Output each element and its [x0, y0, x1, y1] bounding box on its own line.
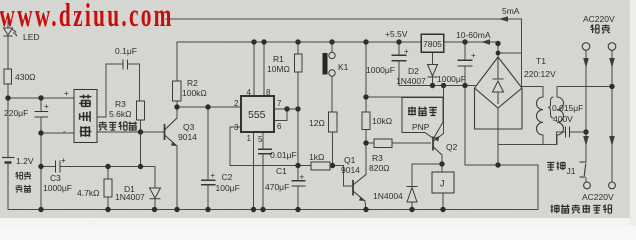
svg-text:R3: R3 [115, 99, 126, 109]
wire: minus bus y=85.5 [399, 85, 475, 87]
svg-text:7: 7 [277, 99, 282, 108]
wire: R2 / Q3 collector vertical [176, 42, 178, 118]
relay J [432, 172, 454, 193]
wire: R3 820 row [366, 142, 431, 144]
transistor Q3 9014 [165, 118, 178, 146]
svg-text:+: + [64, 89, 69, 98]
svg-text:0.01μF: 0.01μF [270, 150, 297, 160]
svg-text:555: 555 [248, 109, 266, 121]
wire: pin1 ground [253, 132, 255, 210]
IC U1 555 [241, 96, 274, 132]
svg-text:+: + [300, 173, 305, 182]
wire: pin7/pin6 link [274, 109, 298, 121]
capacitor 0.01uF [258, 149, 272, 154]
svg-text:R1: R1 [273, 54, 284, 64]
svg-text:T1: T1 [536, 56, 546, 66]
wire: 10k branch [365, 42, 367, 143]
diode D2 1N4007 [428, 65, 438, 78]
svg-text:10kΩ: 10kΩ [372, 116, 392, 126]
wire: 220uF branch [40, 98, 42, 210]
svg-text:C1: C1 [276, 166, 287, 176]
resistor 12 [329, 112, 338, 132]
resistor 1k [311, 162, 330, 170]
svg-text:+: + [404, 47, 409, 56]
watermark www.dziuu.com [0, 0, 174, 34]
svg-text:100kΩ: 100kΩ [182, 88, 207, 98]
wire: bottom ground rail [8, 209, 538, 211]
wire: LED branch vertical top [7, 21, 9, 27]
svg-text:+: + [44, 102, 49, 111]
svg-text:+: + [211, 171, 216, 180]
flow arrows on AC lines [583, 58, 589, 68]
LED D-LED [4, 28, 18, 36]
svg-text:www.dziuu.com: www.dziuu.com [0, 0, 174, 34]
svg-text:220:12V: 220:12V [524, 69, 556, 79]
svg-text:1000μF: 1000μF [43, 183, 72, 193]
svg-text:12Ω: 12Ω [309, 118, 325, 128]
svg-text:0.1μF: 0.1μF [115, 46, 137, 56]
wire: left battery rail [7, 36, 9, 210]
svg-text:0.015μF: 0.015μF [552, 103, 583, 113]
right light margin [630, 0, 636, 226]
wire: K1 / 12ohm branch [331, 42, 334, 166]
wire: pin5 / 0.01uF [262, 132, 264, 210]
svg-text:C3: C3 [50, 173, 61, 183]
wire: 4.7k branch [107, 167, 109, 210]
label charge battery hanzi [15, 172, 31, 192]
svg-text:400V: 400V [553, 114, 573, 124]
svg-text:5.6kΩ: 5.6kΩ [109, 109, 131, 119]
wire: AC right line [611, 51, 613, 182]
svg-text:8: 8 [266, 88, 271, 97]
diode D1 1N4007 [150, 188, 161, 199]
wire: pin3 route [230, 127, 311, 166]
wire: top 5mA charge line [166, 19, 522, 86]
bottom white margin [0, 218, 636, 226]
bridge rectifier [475, 57, 523, 129]
svg-text:R2: R2 [187, 78, 198, 88]
wire: primary leads [557, 87, 612, 145]
wire: bias line y=97 [366, 96, 444, 98]
wire: 555 pin2 horizontal [177, 106, 241, 108]
svg-text:820Ω: 820Ω [369, 163, 390, 173]
svg-text:4.7kΩ: 4.7kΩ [77, 188, 99, 198]
resistor R3 820 [374, 139, 392, 148]
wire: D2 branch [432, 52, 434, 86]
svg-text:9014: 9014 [178, 132, 197, 142]
wire: 1k to Q1 base [330, 166, 352, 187]
capacitor C2 100uF [201, 180, 216, 185]
svg-text:1.2V: 1.2V [16, 156, 34, 166]
svg-text:-: - [63, 127, 66, 136]
capacitor C1 470uF [292, 181, 306, 186]
svg-text:7805: 7805 [423, 39, 442, 49]
switch K1 [323, 52, 336, 76]
transistor Q1 9014 [353, 175, 366, 202]
capacitor 1000uF no.1 [392, 55, 407, 60]
callout medium power PNP [402, 98, 443, 139]
resistor 430 [4, 69, 12, 84]
resistor 10k [362, 112, 370, 130]
svg-text:9014: 9014 [341, 165, 360, 175]
svg-text:1kΩ: 1kΩ [309, 152, 324, 162]
wire: C2 branch [207, 107, 209, 210]
svg-text:R3: R3 [372, 153, 383, 163]
wire: 0.1uF loop [97, 64, 141, 167]
svg-text:3: 3 [234, 123, 239, 132]
svg-text:100μF: 100μF [216, 183, 240, 193]
svg-text:K1: K1 [338, 62, 349, 72]
regulator 7805 [421, 34, 444, 52]
wire: top supply rail [177, 41, 498, 43]
wire: R1 / C1 vertical [297, 42, 299, 210]
svg-text:Q1: Q1 [344, 155, 356, 165]
AC220V output terminals [584, 182, 591, 189]
wire: D1 branch [154, 167, 156, 210]
wire: clock box minus lead [41, 132, 74, 134]
svg-text:1000μF: 1000μF [437, 74, 466, 84]
svg-text:2: 2 [234, 99, 239, 108]
wire: bridge bottom / secondary [498, 108, 557, 165]
svg-text:430Ω: 430Ω [15, 72, 36, 82]
wire: Q2 emitter vertical [443, 86, 445, 134]
wire: 1000uF cap1 branch [398, 42, 400, 86]
wire: C3 row y=166.5 [41, 166, 155, 168]
svg-text:10MΩ: 10MΩ [267, 64, 290, 74]
battery BT 1.2V [2, 158, 15, 163]
svg-text:1: 1 [247, 134, 252, 143]
svg-text:6: 6 [277, 122, 282, 131]
svg-text:AC220V: AC220V [583, 14, 615, 24]
capacitor 0.1uF [123, 60, 128, 70]
resistor R3 5.6k [137, 101, 145, 120]
resistor R1 10M [295, 54, 303, 72]
svg-text:PNP: PNP [412, 122, 430, 132]
wire: AC left line [585, 51, 587, 183]
svg-text:AC220V: AC220V [582, 192, 614, 202]
label alarm output hanzi [99, 121, 137, 130]
svg-text:C2: C2 [222, 172, 233, 182]
capacitor 220uF [35, 112, 49, 118]
wire: bottom-right return [465, 165, 538, 210]
svg-text:5mA: 5mA [502, 6, 520, 16]
resistor 4.7k [104, 179, 112, 197]
svg-text:+5.5V: +5.5V [385, 29, 408, 39]
svg-text:1N4007: 1N4007 [115, 192, 145, 202]
capacitor 0.015uF 400V [566, 127, 570, 138]
svg-text:D2: D2 [408, 66, 419, 76]
svg-text:470μF: 470μF [265, 182, 289, 192]
resistor R2 100k [173, 81, 182, 101]
transformer T1 [537, 97, 564, 135]
svg-text:+: + [471, 51, 476, 60]
wire: alarm output to Q3 base [97, 131, 164, 133]
svg-text:Q3: Q3 [183, 122, 195, 132]
svg-text:220μF: 220μF [4, 108, 28, 118]
capacitor C3 1000uF [56, 161, 61, 173]
svg-text:4: 4 [247, 88, 252, 97]
svg-text:1N4007: 1N4007 [396, 76, 426, 86]
transistor Q2 PNP [433, 134, 444, 156]
relay contact J1 normally closed [580, 162, 587, 177]
AC220V input terminals [582, 43, 590, 51]
svg-text:5: 5 [258, 135, 263, 144]
svg-text:J: J [440, 179, 445, 189]
svg-text:1N4004: 1N4004 [373, 191, 403, 201]
svg-text:+: + [61, 156, 66, 165]
wire: 0.015uF row [557, 132, 587, 145]
wire: secondary top [522, 87, 543, 145]
svg-text:J1: J1 [567, 166, 576, 176]
svg-text:Q2: Q2 [446, 142, 458, 152]
wire: Q2 collector / relay [441, 155, 443, 172]
wire: rail bend into bridge [498, 42, 522, 66]
wire: 555 pin4 pin8 stubs [254, 42, 264, 96]
svg-text:1000μF: 1000μF [366, 65, 395, 75]
digital clock box U-CLK [74, 90, 97, 143]
capacitor 1000uF no.2 [458, 60, 473, 66]
svg-text:10-60mA: 10-60mA [456, 30, 491, 40]
diode 1N4004 [407, 187, 418, 203]
wire: Q3 emitter to ground [176, 146, 178, 210]
wire: Q1 collector/emitter [365, 143, 366, 210]
wire: 1000uF cap2 branch [464, 42, 466, 165]
wire: 1N4004 branch [412, 164, 442, 210]
wire: relay to ground [442, 193, 444, 210]
wire: top-left rail y=98 [8, 97, 74, 99]
